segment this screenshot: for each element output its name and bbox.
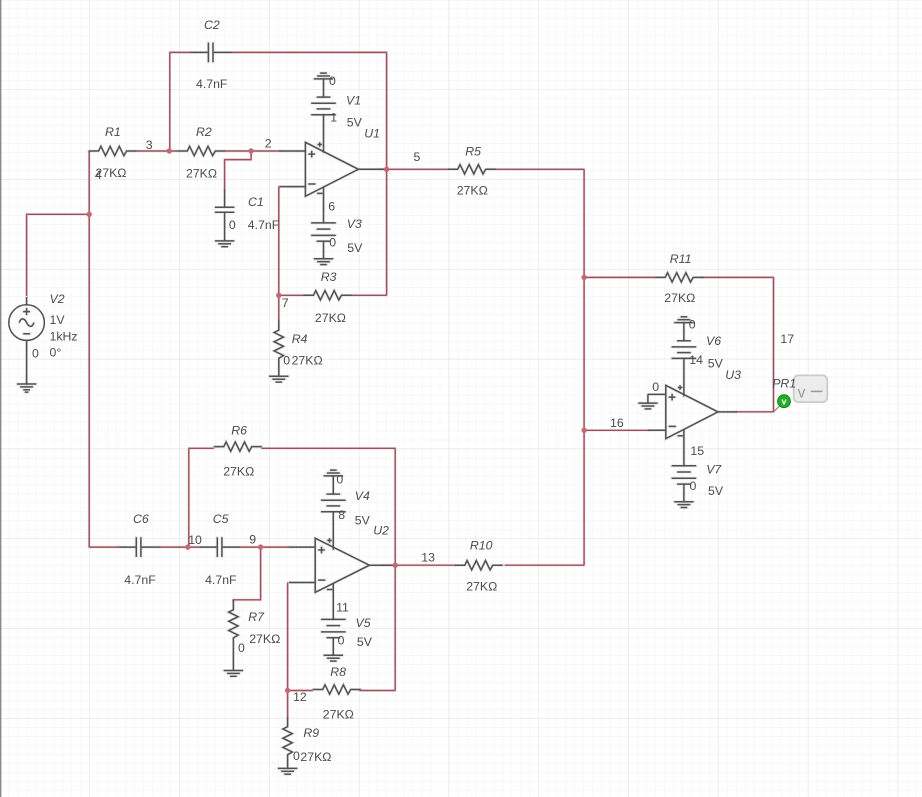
svg-text:1: 1	[330, 110, 337, 124]
svg-text:1kHz: 1kHz	[50, 330, 78, 344]
svg-text:V6: V6	[706, 334, 721, 348]
svg-text:v: v	[798, 385, 806, 402]
svg-text:27KΩ: 27KΩ	[457, 183, 488, 197]
svg-text:R10: R10	[470, 539, 493, 553]
svg-text:5V: 5V	[347, 241, 363, 255]
svg-text:5V: 5V	[708, 357, 724, 371]
svg-text:U2: U2	[373, 523, 389, 537]
svg-text:0: 0	[293, 749, 300, 763]
svg-text:27KΩ: 27KΩ	[249, 632, 280, 646]
svg-text:0: 0	[238, 641, 245, 655]
svg-text:PR1: PR1	[772, 377, 796, 391]
svg-text:2: 2	[265, 137, 272, 151]
svg-text:R1: R1	[105, 125, 121, 139]
svg-text:17: 17	[780, 332, 794, 346]
svg-text:0: 0	[338, 633, 345, 647]
svg-text:V3: V3	[347, 217, 362, 231]
svg-text:0: 0	[283, 353, 290, 367]
svg-text:15: 15	[690, 444, 704, 458]
svg-text:9: 9	[249, 532, 256, 546]
svg-text:4.7nF: 4.7nF	[248, 218, 280, 232]
svg-text:R4: R4	[292, 332, 308, 346]
svg-text:C1: C1	[248, 195, 264, 209]
svg-text:U3: U3	[725, 368, 741, 382]
svg-text:13: 13	[421, 551, 435, 565]
svg-text:16: 16	[610, 416, 624, 430]
svg-text:3: 3	[146, 138, 153, 152]
svg-text:5V: 5V	[347, 115, 363, 129]
svg-text:7: 7	[282, 296, 289, 310]
svg-text:0°: 0°	[50, 346, 62, 360]
svg-text:27KΩ: 27KΩ	[300, 750, 331, 764]
svg-text:11: 11	[336, 601, 349, 615]
svg-text:27KΩ: 27KΩ	[223, 465, 254, 479]
svg-text:R7: R7	[248, 610, 265, 624]
svg-text:27KΩ: 27KΩ	[292, 354, 323, 368]
svg-text:4: 4	[95, 168, 102, 182]
svg-text:6: 6	[328, 200, 335, 214]
svg-text:27KΩ: 27KΩ	[466, 579, 497, 593]
svg-text:V2: V2	[50, 292, 65, 306]
svg-text:5: 5	[414, 150, 421, 164]
svg-text:V7: V7	[706, 463, 722, 477]
svg-text:12: 12	[293, 690, 307, 704]
svg-text:0: 0	[336, 472, 343, 486]
svg-text:v: v	[781, 397, 786, 407]
svg-text:27KΩ: 27KΩ	[186, 166, 217, 180]
svg-text:14: 14	[689, 353, 703, 367]
svg-text:R3: R3	[321, 270, 337, 284]
svg-text:V4: V4	[355, 489, 370, 503]
svg-text:U1: U1	[364, 126, 380, 140]
svg-text:0: 0	[329, 74, 336, 88]
svg-text:0: 0	[652, 380, 659, 394]
svg-text:C6: C6	[133, 512, 149, 526]
svg-text:4.7nF: 4.7nF	[196, 77, 228, 91]
svg-text:5V: 5V	[708, 484, 724, 498]
svg-text:8: 8	[338, 508, 345, 522]
svg-text:1V: 1V	[50, 313, 66, 327]
svg-text:0: 0	[690, 479, 697, 493]
svg-text:V5: V5	[356, 616, 371, 630]
svg-text:R2: R2	[196, 125, 212, 139]
svg-text:V1: V1	[346, 94, 361, 108]
svg-text:C2: C2	[204, 18, 220, 32]
svg-text:5V: 5V	[357, 635, 373, 649]
svg-text:R11: R11	[670, 252, 692, 266]
svg-text:0: 0	[229, 218, 236, 232]
svg-text:C5: C5	[213, 512, 229, 526]
svg-text:4.7nF: 4.7nF	[124, 573, 156, 587]
svg-text:R9: R9	[303, 726, 319, 740]
svg-text:0: 0	[32, 346, 39, 360]
svg-text:R8: R8	[330, 665, 346, 679]
svg-text:0: 0	[689, 317, 696, 331]
svg-text:R6: R6	[231, 424, 247, 438]
svg-text:0: 0	[329, 235, 336, 249]
svg-text:27KΩ: 27KΩ	[664, 291, 695, 305]
svg-text:10: 10	[188, 533, 202, 547]
svg-text:27KΩ: 27KΩ	[315, 311, 346, 325]
svg-text:R5: R5	[465, 145, 481, 159]
svg-text:4.7nF: 4.7nF	[205, 573, 237, 587]
svg-text:27KΩ: 27KΩ	[323, 708, 354, 722]
svg-text:5V: 5V	[355, 514, 371, 528]
